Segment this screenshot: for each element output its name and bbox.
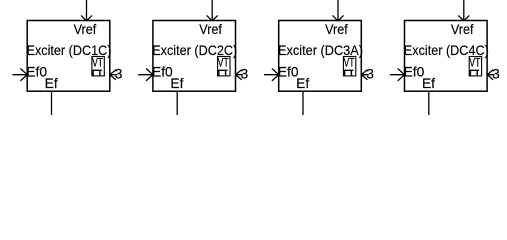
svg-text:VT: VT xyxy=(344,55,355,69)
svg-text:3: 3 xyxy=(115,67,123,82)
svg-text:VT: VT xyxy=(218,55,229,69)
svg-text:3: 3 xyxy=(241,67,249,82)
svg-text:3: 3 xyxy=(492,67,500,82)
svg-text:Vref: Vref xyxy=(199,22,222,37)
svg-text:Vref: Vref xyxy=(325,22,348,37)
svg-text:Ef: Ef xyxy=(170,76,183,91)
svg-text:Ef: Ef xyxy=(296,76,309,91)
svg-text:Vref: Vref xyxy=(451,22,474,37)
svg-text:Vref: Vref xyxy=(74,22,97,37)
svg-text:Ef: Ef xyxy=(45,76,58,91)
svg-text:Ef: Ef xyxy=(422,76,435,91)
svg-text:3: 3 xyxy=(366,67,374,82)
svg-text:VT: VT xyxy=(469,55,480,69)
svg-text:VT: VT xyxy=(92,55,103,69)
